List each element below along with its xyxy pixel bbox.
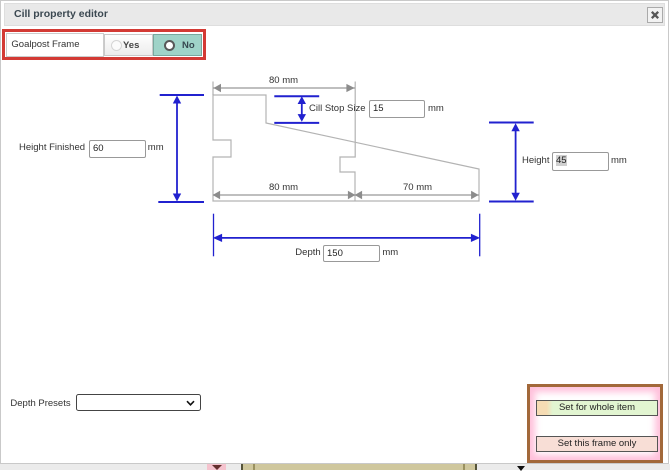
cill stop size label [309, 103, 366, 114]
Yes radio button [104, 34, 153, 56]
No radio button [153, 34, 202, 56]
cill stop mm [428, 103, 444, 114]
cill stop top cap [274, 95, 319, 97]
depth right extension line [479, 214, 481, 257]
set for whole item button [536, 400, 658, 416]
No radio circle [164, 40, 175, 51]
top dim right arrow [346, 84, 354, 92]
underlying page strip below dialog [0, 464, 670, 470]
Yes radio circle [111, 40, 122, 51]
dim text 80mm top [269, 75, 298, 86]
underlying black triangle [517, 466, 525, 471]
height finished up arrowhead [173, 96, 181, 104]
depth left arrowhead [213, 234, 222, 242]
cill stop down arrowhead [298, 114, 306, 122]
bottom 80 right arrow [348, 191, 356, 200]
top dim left arrow [214, 84, 222, 93]
height finished label [19, 142, 85, 153]
close button [647, 7, 663, 23]
depth label [295, 247, 320, 258]
right height down arrowhead [511, 193, 519, 201]
height finished bottom cap [158, 201, 204, 203]
underlying pink button behind dialog [207, 464, 226, 470]
profile divider with notch at x=355 [340, 82, 355, 201]
right height top cap [489, 122, 534, 124]
No text [182, 40, 195, 51]
height finished top cap [160, 94, 204, 96]
depth left extension line [213, 214, 215, 257]
title text [14, 9, 108, 20]
Goalpost Frame label box [6, 33, 105, 57]
Yes text [123, 40, 139, 51]
height input with selected text [552, 152, 609, 171]
underlying tan divider 2 [463, 464, 465, 470]
height finished mm [148, 142, 164, 153]
top dim left extension [212, 82, 214, 96]
right height bottom cap [489, 201, 534, 203]
right height arrow stem [515, 125, 517, 199]
height finished down arrowhead [173, 194, 181, 202]
underlying dark red triangle [212, 465, 222, 470]
underlying tan toolbar block [241, 464, 477, 470]
depth presets label [10, 398, 70, 409]
height finished input [89, 140, 146, 158]
depth arrow line [216, 237, 477, 239]
bottom 70 right arrow [471, 191, 479, 200]
cill stop bottom cap [274, 122, 319, 124]
bottom 80 left arrow [213, 191, 221, 200]
red highlight box (Goalpost Frame row) [2, 29, 206, 60]
depth mm [382, 247, 398, 258]
height mm [611, 155, 627, 166]
right height up arrowhead [511, 123, 519, 131]
bottom 70 left arrow [355, 191, 363, 200]
brown highlight box around buttons [527, 384, 664, 464]
height label right [522, 155, 549, 166]
dim text 70mm bottom [403, 182, 432, 193]
underlying tan divider [253, 464, 255, 470]
depth input [323, 245, 380, 262]
bottom dimension line 70mm [355, 194, 479, 196]
cill stop input [369, 100, 425, 119]
top dimension line 80mm [213, 87, 355, 89]
dim text 80mm bottom [269, 182, 298, 193]
cill profile outline [213, 95, 479, 201]
depth presets select [76, 394, 201, 411]
cill stop arrow stem [301, 99, 303, 120]
cill stop up arrowhead [298, 96, 306, 104]
depth right arrowhead [471, 234, 480, 242]
height finished arrow stem [176, 98, 178, 199]
set this frame only button [536, 436, 658, 452]
bottom dimension line 80mm [213, 194, 355, 196]
title bar [4, 3, 665, 26]
